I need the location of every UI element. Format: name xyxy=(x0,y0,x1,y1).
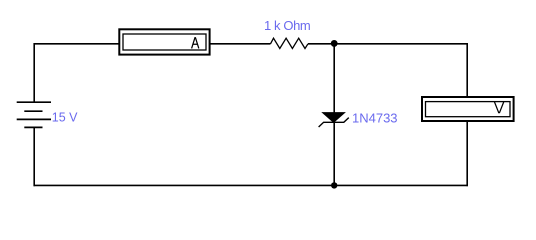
wire left vertical lower: battery to bottom corner xyxy=(33,127,35,186)
svg-text:15 V: 15 V xyxy=(52,111,78,125)
junction node top xyxy=(331,40,338,47)
wire right vertical lower: voltmeter to bottom corner xyxy=(466,121,468,186)
label 1N4733 xyxy=(352,111,398,126)
svg-text:1 k Ohm: 1 k Ohm xyxy=(264,18,310,33)
wire left vertical: top corner down to battery xyxy=(33,43,35,102)
wire middle branch lower: zener to bottom junction xyxy=(333,122,335,185)
label 1 k Ohm xyxy=(264,18,310,33)
svg-text:1N4733: 1N4733 xyxy=(352,111,398,126)
ammeter letter A xyxy=(192,37,199,48)
battery V1 xyxy=(17,102,51,127)
zener diode cathode bar with bent ends xyxy=(319,118,349,127)
voltmeter letter V xyxy=(494,102,504,114)
wire bottom: left corner to right corner xyxy=(34,184,468,186)
voltmeter U2 xyxy=(422,97,514,121)
wire ammeter to resistor xyxy=(210,43,271,45)
wire top-left: battery to ammeter xyxy=(34,43,120,45)
wire middle branch: junction to zener xyxy=(333,44,335,114)
resistor R1 zigzag xyxy=(271,38,309,48)
label 15 V xyxy=(52,111,78,125)
junction node bottom xyxy=(331,182,337,188)
ammeter U1 xyxy=(119,29,209,54)
zener diode D1 triangle xyxy=(323,113,345,123)
wire resistor to top-right corner xyxy=(308,43,468,45)
wire right vertical upper: top corner to voltmeter xyxy=(466,43,468,97)
